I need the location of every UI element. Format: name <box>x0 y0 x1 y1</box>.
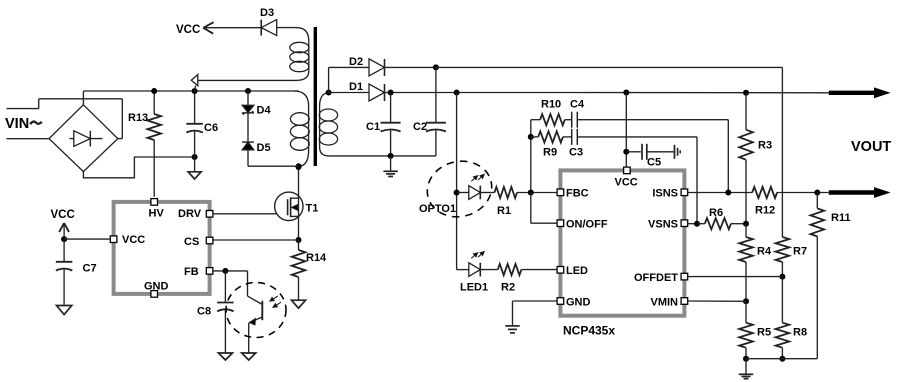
svg-text:ON/OFF: ON/OFF <box>566 219 608 231</box>
svg-text:C3: C3 <box>569 147 583 159</box>
svg-text:VOUT: VOUT <box>851 139 891 155</box>
svg-text:C8: C8 <box>197 306 211 318</box>
svg-text:R2: R2 <box>501 282 515 294</box>
svg-text:R11: R11 <box>831 212 851 224</box>
svg-text:R9: R9 <box>543 147 557 159</box>
svg-text:R4: R4 <box>757 246 772 258</box>
svg-text:C5: C5 <box>647 157 661 169</box>
svg-text:R5: R5 <box>757 327 771 339</box>
svg-text:C7: C7 <box>83 263 97 275</box>
svg-text:R8: R8 <box>793 327 807 339</box>
svg-text:R3: R3 <box>758 140 772 152</box>
svg-text:R13: R13 <box>128 112 148 124</box>
svg-text:ISNS: ISNS <box>652 188 678 200</box>
svg-text:D1: D1 <box>349 81 363 93</box>
svg-text:LED: LED <box>566 265 588 277</box>
svg-text:DRV: DRV <box>178 208 202 220</box>
svg-text:R6: R6 <box>709 207 723 219</box>
svg-text:VCC: VCC <box>122 234 145 246</box>
svg-text:R10: R10 <box>541 99 561 111</box>
svg-text:R7: R7 <box>793 246 807 258</box>
svg-text:VCC: VCC <box>615 176 638 188</box>
svg-text:FB: FB <box>184 266 199 278</box>
svg-text:VCC: VCC <box>176 24 200 36</box>
svg-text:R1: R1 <box>497 205 511 217</box>
svg-text:C6: C6 <box>204 122 218 134</box>
svg-text:VIN: VIN <box>5 116 29 132</box>
svg-text:HV: HV <box>149 207 165 219</box>
svg-text:FBC: FBC <box>566 188 589 200</box>
svg-text:D3: D3 <box>260 7 274 19</box>
svg-text:D4: D4 <box>257 105 272 117</box>
svg-text:C2: C2 <box>413 121 427 133</box>
svg-text:VCC: VCC <box>51 209 75 221</box>
svg-text:GND: GND <box>566 296 591 308</box>
svg-text:CS: CS <box>184 236 199 248</box>
svg-text:VSNS: VSNS <box>648 219 678 231</box>
svg-text:GND: GND <box>144 280 169 292</box>
svg-text:D2: D2 <box>349 56 363 68</box>
svg-text:VMIN: VMIN <box>651 296 679 308</box>
svg-text:NCP435x: NCP435x <box>563 324 615 338</box>
svg-text:R14: R14 <box>306 252 327 264</box>
svg-text:T1: T1 <box>306 203 319 215</box>
svg-text:OPTO1: OPTO1 <box>419 203 456 215</box>
svg-text:C1: C1 <box>366 121 380 133</box>
svg-text:R12: R12 <box>755 205 775 217</box>
svg-text:D5: D5 <box>257 142 271 154</box>
svg-text:OFFDET: OFFDET <box>634 272 678 284</box>
svg-text:LED1: LED1 <box>460 282 488 294</box>
svg-text:C4: C4 <box>570 99 585 111</box>
